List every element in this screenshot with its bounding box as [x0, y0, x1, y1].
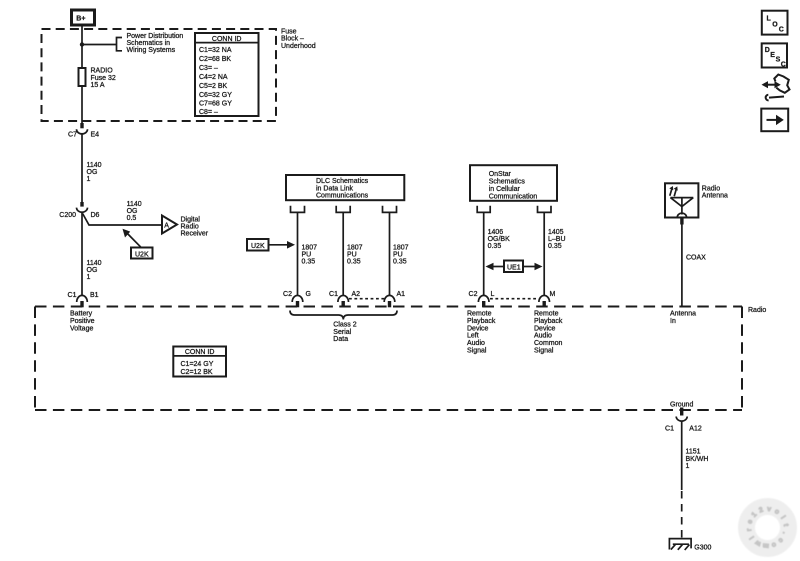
connector pin C1/B1: [80, 301, 83, 307]
antenna symbol: [670, 198, 693, 215]
svg-text:O: O: [772, 21, 778, 28]
DLC schematics box: [286, 175, 404, 200]
svg-text:C6=32 GY: C6=32 GY: [199, 92, 232, 99]
svg-text:G300: G300: [694, 544, 711, 551]
svg-text:Playback: Playback: [534, 318, 563, 325]
callout UE1 box: [504, 261, 523, 273]
loc icon: [762, 11, 788, 35]
ground wire solid: [681, 421, 683, 490]
fuse RADIO 15 A: [79, 68, 86, 86]
OnStar wire left: [483, 212, 485, 295]
DLC wire 2: [342, 212, 344, 295]
svg-text:1406: 1406: [488, 229, 504, 236]
svg-text:Ground: Ground: [670, 402, 693, 409]
svg-text:Class 2: Class 2: [333, 322, 356, 329]
callout U2K (DLC) box: [247, 239, 269, 251]
svg-text:PU: PU: [302, 252, 312, 259]
svg-text:1807: 1807: [393, 245, 409, 252]
svg-text:Antenna: Antenna: [702, 193, 728, 200]
svg-text:PU: PU: [347, 252, 357, 259]
svg-text:0.35: 0.35: [548, 243, 562, 250]
svg-text:E4: E4: [91, 131, 100, 138]
svg-text:Signal: Signal: [534, 348, 554, 355]
svg-text:A1: A1: [397, 291, 406, 298]
connector C7/E4 pin: [80, 123, 83, 128]
svg-text:C2: C2: [283, 291, 292, 298]
dotted link A2 to A1: [349, 298, 385, 300]
svg-text:0.35: 0.35: [488, 243, 502, 250]
OnStar stub left: [477, 206, 490, 213]
svg-text:0.35: 0.35: [393, 259, 407, 266]
svg-text:E: E: [770, 52, 775, 59]
radio antenna box: [665, 183, 698, 217]
svg-text:C8= –: C8= –: [199, 109, 218, 116]
svg-text:C: C: [781, 61, 786, 68]
svg-text:1: 1: [686, 463, 690, 470]
svg-text:Playback: Playback: [467, 318, 496, 325]
svg-text:In: In: [670, 318, 676, 325]
svg-text:U2K: U2K: [135, 251, 149, 258]
power distribution bracket: [117, 38, 123, 51]
svg-text:BK/WH: BK/WH: [686, 456, 709, 463]
wire C7 to C200: [81, 134, 83, 203]
OnStar stub right: [538, 206, 552, 213]
svg-text:1807: 1807: [302, 245, 318, 252]
svg-text:Remote: Remote: [467, 311, 492, 318]
svg-text:C2=68 BK: C2=68 BK: [199, 56, 231, 63]
wire fuse down to connector C7: [81, 86, 83, 124]
connector dome M (OnStar right wire into radio): [539, 295, 550, 302]
svg-text:C7: C7: [68, 131, 77, 138]
svg-text:1: 1: [87, 274, 91, 281]
svg-text:C2: C2: [469, 291, 478, 298]
svg-text:OG/BK: OG/BK: [488, 236, 511, 243]
OnStar schematics box: [470, 165, 557, 201]
watermark wire12volt.com: [746, 506, 789, 549]
svg-text:Audio: Audio: [467, 340, 485, 347]
fuse block underhood dashed box: [42, 29, 277, 121]
svg-text:Serial: Serial: [333, 329, 351, 336]
svg-text:Device: Device: [467, 325, 489, 332]
svg-text:COAX: COAX: [686, 254, 706, 261]
antenna pin below box: [680, 218, 683, 225]
svg-text:C1: C1: [329, 291, 338, 298]
svg-text:Remote: Remote: [534, 311, 559, 318]
svg-text:OnStar: OnStar: [489, 171, 512, 178]
connector pin C1: [342, 301, 345, 307]
svg-text:A2: A2: [352, 291, 361, 298]
DLC stub 3: [383, 206, 397, 213]
svg-text:0.5: 0.5: [127, 215, 137, 222]
svg-text:Radio: Radio: [702, 185, 720, 192]
svg-text:Common: Common: [534, 340, 563, 347]
svg-text:L: L: [767, 16, 772, 23]
svg-text:Radio: Radio: [748, 307, 766, 314]
svg-text:CONN ID: CONN ID: [185, 349, 215, 356]
svg-text:Radio: Radio: [181, 224, 199, 231]
svg-text:15 A: 15 A: [91, 82, 105, 89]
svg-text:Positive: Positive: [70, 318, 95, 325]
antenna connector dome: [677, 213, 686, 217]
svg-text:C1=32 NA: C1=32 NA: [199, 47, 232, 54]
svg-text:G: G: [306, 291, 311, 298]
svg-text:A: A: [164, 222, 169, 229]
connector dome A1 (DLC wire 3 into radio): [384, 295, 395, 302]
svg-text:1140: 1140: [127, 201, 142, 208]
amplifier triangle A (digital radio receiver): [162, 216, 177, 234]
connector C200 cup: [77, 208, 88, 213]
connector dome C1 (battery feed into radio): [77, 295, 88, 302]
OnStar wire right: [543, 212, 545, 295]
svg-text:m: m: [762, 542, 769, 550]
callout U2K (receiver) arrow: [127, 233, 141, 247]
svg-text:A12: A12: [689, 426, 702, 433]
connector C200 pin: [80, 202, 83, 207]
callout U2K (DLC) arrow: [269, 244, 289, 246]
svg-text:Audio: Audio: [534, 333, 552, 340]
svg-text:1807: 1807: [347, 245, 363, 252]
svg-text:1405: 1405: [548, 229, 564, 236]
navigation icon double arrow: [766, 84, 777, 86]
ground symbol G300: [669, 539, 691, 550]
svg-text:Left: Left: [467, 333, 479, 340]
svg-text:Power Distribution: Power Distribution: [127, 33, 184, 40]
wire C200 down to C1/B1: [81, 212, 83, 295]
connector dome C2 (DLC wire 1 into radio): [292, 295, 303, 302]
svg-text:C2=12 BK: C2=12 BK: [181, 369, 213, 376]
connector pin C2/L: [482, 301, 485, 307]
svg-text:C: C: [779, 27, 784, 34]
connector pin M: [543, 301, 546, 307]
svg-text:B1: B1: [90, 292, 99, 299]
wire B+ down to fuse: [81, 25, 83, 68]
svg-text:Schematics in: Schematics in: [127, 40, 171, 47]
svg-text:1: 1: [87, 176, 91, 183]
svg-text:in Cellular: in Cellular: [489, 186, 521, 193]
svg-text:Voltage: Voltage: [70, 325, 93, 332]
wire junction to power distribution bracket: [82, 44, 117, 46]
svg-text:C5=2 BK: C5=2 BK: [199, 83, 228, 90]
svg-text:Receiver: Receiver: [181, 231, 209, 238]
svg-text:C200: C200: [59, 212, 76, 219]
svg-text:Digital: Digital: [181, 217, 201, 224]
branch wire C200 to digital radio receiver: [83, 214, 162, 226]
svg-text:L: L: [491, 291, 495, 298]
svg-text:C7=68 GY: C7=68 GY: [199, 101, 232, 108]
radio dashed box: [35, 307, 742, 411]
svg-text:in Data Link: in Data Link: [316, 185, 353, 192]
svg-text:Wiring Systems: Wiring Systems: [127, 47, 176, 54]
svg-text:CONN ID: CONN ID: [212, 36, 242, 43]
svg-text:Communication: Communication: [489, 194, 538, 201]
svg-text:C3= –: C3= –: [199, 65, 218, 72]
desc icon: [762, 43, 787, 67]
connector pin A1: [388, 301, 391, 307]
connector C1/A12 pin: [680, 408, 683, 416]
svg-text:v: v: [767, 506, 772, 513]
navigation icon wrench: [769, 97, 784, 98]
svg-text:0.35: 0.35: [347, 259, 361, 266]
svg-text:Antenna: Antenna: [670, 311, 696, 318]
svg-text:OG: OG: [87, 267, 98, 274]
svg-text:Communications: Communications: [316, 193, 369, 200]
svg-text:Battery: Battery: [70, 311, 93, 318]
dotted link L to M: [490, 298, 538, 300]
connector dome C1 (DLC wire 2 into radio): [338, 295, 349, 302]
callout UE1 left arrow: [489, 266, 504, 268]
svg-text:UE1: UE1: [507, 264, 521, 271]
svg-text:C1: C1: [68, 292, 77, 299]
antenna wave arrows: [670, 189, 676, 196]
svg-text:OG: OG: [127, 208, 138, 215]
svg-text:0.35: 0.35: [302, 259, 316, 266]
svg-text:Signal: Signal: [467, 348, 487, 355]
forward arrow icon: [761, 109, 788, 132]
svg-text:Underhood: Underhood: [281, 43, 316, 50]
class 2 serial data brace: [290, 311, 397, 320]
DLC wire 3: [389, 212, 391, 295]
svg-text:Device: Device: [534, 325, 556, 332]
svg-text:B+: B+: [76, 16, 85, 23]
svg-text:DLC Schematics: DLC Schematics: [316, 178, 369, 185]
svg-text:C4=2 NA: C4=2 NA: [199, 74, 228, 81]
navigation icon blob outline: [774, 75, 789, 93]
svg-text:D6: D6: [91, 212, 100, 219]
svg-text:C1=24 GY: C1=24 GY: [181, 361, 214, 368]
DLC wire 1: [297, 212, 299, 295]
connector C7/E4 cup: [77, 129, 88, 134]
DLC stub 2: [336, 206, 350, 213]
svg-text:Block –: Block –: [281, 36, 304, 43]
battery feed B+ box: [72, 10, 95, 25]
callout U2K (receiver) box: [131, 248, 153, 259]
svg-text:C1: C1: [665, 426, 674, 433]
ground wire dashed: [681, 491, 683, 542]
svg-text:Fuse: Fuse: [281, 28, 297, 35]
junction node: [80, 42, 84, 46]
coax wire: [681, 225, 683, 307]
svg-text:M: M: [550, 291, 556, 298]
connector pin C2: [296, 301, 299, 307]
CONN ID table (fuse block): [195, 33, 259, 116]
svg-text:U2K: U2K: [251, 243, 265, 250]
svg-text:Data: Data: [333, 336, 348, 343]
svg-text:L–BU: L–BU: [548, 236, 566, 243]
DLC stub 1: [291, 206, 305, 213]
svg-text:Fuse 32: Fuse 32: [91, 75, 116, 82]
svg-text:D: D: [765, 47, 770, 54]
svg-text:1140: 1140: [87, 260, 102, 267]
svg-text:PU: PU: [393, 252, 403, 259]
svg-text:Schematics: Schematics: [489, 179, 526, 186]
connector dome C2 (OnStar left wire into radio): [478, 295, 489, 302]
svg-text:RADIO: RADIO: [91, 68, 114, 75]
CONN ID table (radio): [173, 347, 226, 377]
svg-text:OG: OG: [87, 169, 98, 176]
svg-text:1151: 1151: [686, 449, 701, 456]
svg-text:1140: 1140: [87, 162, 102, 169]
connector C1/A12 cup: [676, 417, 687, 422]
callout UE1 right arrow: [523, 266, 539, 268]
